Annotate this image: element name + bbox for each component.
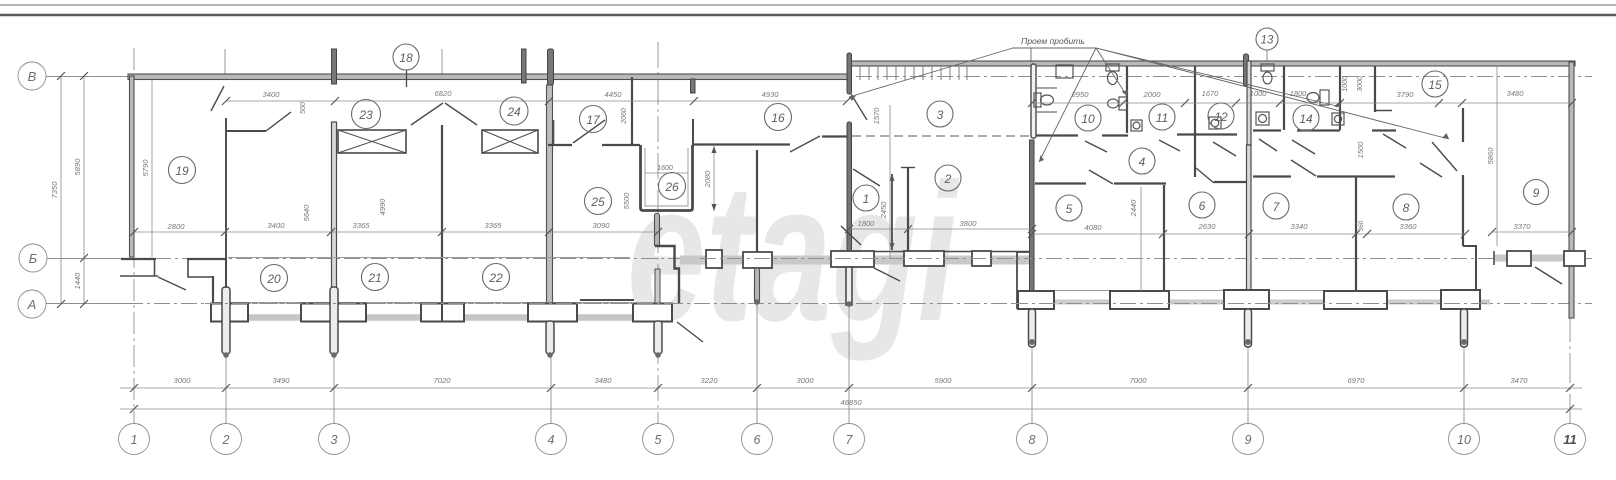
svg-text:1800: 1800 [1290,89,1308,98]
axis 5 vertical line [657,42,659,424]
svg-text:21: 21 [367,271,381,285]
svg-text:7: 7 [846,433,854,447]
wall x908 [907,168,909,251]
middle dimension line left y232 [134,231,658,233]
porch thin edge right section [1037,290,1465,292]
column base axis 9 [1224,290,1269,309]
column cross axis 7 [831,251,874,267]
room22 right step wall [655,246,679,304]
svg-text:15: 15 [1428,78,1442,92]
axis circle А left [18,290,46,318]
door leaf room 1 on axis7 wall [853,169,880,186]
axis circle 8 [1017,424,1048,455]
svg-text:2630: 2630 [1198,222,1217,231]
room circle 21 [362,264,389,291]
toilet room 11 [1106,64,1119,85]
svg-text:26: 26 [664,180,679,194]
leader line 3 with arrow [1096,48,1128,96]
top dimension line left section [226,100,847,102]
svg-text:3340: 3340 [1291,222,1309,231]
svg-text:4990: 4990 [378,198,387,216]
axis circle 11 [1555,424,1586,455]
svg-text:3365: 3365 [353,221,371,230]
axis line Б horizontal [47,258,1592,260]
svg-text:3400: 3400 [263,90,281,99]
right end dim ticks [1488,228,1576,236]
duct box room 26 inner line [645,148,688,206]
circle 18 leader line [406,70,408,87]
svg-text:8: 8 [1403,201,1410,215]
svg-text:360: 360 [1358,220,1365,231]
window mullion bar x1246 [1244,54,1249,86]
bathroom partition x1127 [1126,66,1128,133]
axis 9 vertical line [1247,310,1249,424]
svg-text:19: 19 [175,164,189,178]
svg-text:2: 2 [222,433,230,447]
sink room 12b [1256,112,1269,125]
wall stub y110 at x1375 [1375,110,1392,112]
door leaf y145 opening [790,136,820,152]
partition x632 [631,77,633,145]
room circle 24 [500,97,528,125]
bathroom partition x1340 [1339,66,1341,130]
door leaf stair wall top [851,94,867,120]
svg-text:Б: Б [29,251,38,266]
room5 door leaf [1089,170,1113,184]
top exterior wall left section [128,74,849,80]
partition x553 room17 [553,120,555,145]
left end exterior wall [130,76,135,257]
room circle 17 [580,106,607,133]
room8 door leaf [1420,163,1442,177]
axis В solid lead-in [46,76,130,78]
svg-text:1600: 1600 [657,165,673,172]
stair landing dashed line [852,135,1029,137]
inner vertical dim line x152 [151,80,153,257]
axis circle 2 [211,424,242,455]
axis circle Б left [19,244,47,272]
partition x334 window sill [228,256,334,258]
svg-text:5: 5 [655,433,662,447]
svg-text:18: 18 [399,51,413,65]
vestibule dim ticks [845,225,1036,233]
column bar axis 9 [1245,309,1252,347]
bottom row ticks [130,384,1574,392]
column bar axis 8 [1029,309,1036,347]
top left ticks [222,97,851,105]
wall stub x693 below top wall [691,79,696,93]
column cross base axis 2 [211,304,248,322]
row2 end ticks [130,405,1574,413]
right end south wall block b [1564,251,1585,266]
room circle 2 [935,165,961,191]
svg-text:3470: 3470 [1511,376,1529,385]
column bar axis 5 inner [655,269,660,303]
svg-text:6: 6 [754,433,761,447]
vestibule south wall edge [852,251,1030,253]
svg-text:6: 6 [1199,199,1206,213]
svg-text:11: 11 [1156,111,1168,125]
partition x1164 rooms 5/6 [1163,185,1165,291]
svg-text:1: 1 [863,192,870,206]
axis circle 3 [319,424,350,455]
column bar axis 6 [755,268,760,304]
stairwell wall axis 7 [847,53,852,94]
right middle dim line y234 [1032,233,1465,235]
toilet room 10 [1034,93,1054,107]
corridor south wall seg a [1035,182,1086,184]
room circle 22 [483,264,510,291]
svg-text:2080: 2080 [703,170,712,189]
svg-text:3090: 3090 [593,221,611,230]
svg-text:1570: 1570 [872,107,881,125]
svg-text:3790: 3790 [1397,90,1415,99]
svg-text:6970: 6970 [1348,376,1366,385]
room circle 4 [1129,148,1155,174]
wall y145 segment b [602,144,640,146]
porch foundation gray band left [226,314,658,321]
svg-text:500: 500 [300,102,307,114]
svg-text:7020: 7020 [434,376,452,385]
door leaf room 16 vestibule [841,226,861,245]
column base long 8-9 [1110,291,1169,309]
corridor door leaf 4 [1259,139,1277,151]
room circle 7 [1263,193,1289,219]
column bar axis 3 [330,287,338,354]
column cross base axis 4 [528,304,577,322]
column bar axis 2 [222,287,230,354]
bathroom partition x1375 [1374,66,1376,112]
bottom dimension line row 2 [120,408,1582,410]
axis line А horizontal [46,303,1592,305]
room4 dim line x1141 [1140,187,1142,291]
left dim ticks [57,72,88,308]
bathroom partition x1249 [1247,61,1251,145]
bathroom partition x1284 [1283,66,1285,130]
svg-text:5890: 5890 [73,158,82,176]
axis circle 10 [1449,424,1480,455]
room circle 25 [585,188,612,215]
bathroom wall y130 seg d [1253,129,1281,131]
top right ticks [1028,99,1576,107]
right end exterior wall [1569,62,1574,318]
partition x334 rooms 19/20 strip [332,122,337,303]
dim line 1600 [645,172,688,174]
toilet room 10 east wall [1108,97,1128,110]
entrance lower step edge [120,275,158,277]
window mullion bar axis 3 [332,49,337,84]
column bar axis 10 [1461,309,1468,347]
svg-text:4: 4 [1139,155,1146,169]
stair hatch treads [860,66,967,80]
double door leaf left x442 [411,103,443,125]
partition x226 room 19/23 [225,118,227,258]
bathroom wall y133 seg b [1102,134,1128,136]
axis 7 vertical line [848,306,850,424]
axis A dash-dot overlay right porch [1012,303,1490,305]
axis 2 stub above wall [224,49,226,76]
note underline [1012,47,1096,49]
svg-text:4450: 4450 [605,90,623,99]
svg-text:3490: 3490 [273,376,291,385]
svg-text:8: 8 [1029,433,1036,447]
bathroom partition x1195 [1194,66,1196,177]
column bar axis 5 [654,321,662,354]
svg-text:23: 23 [358,108,373,122]
porch foundation gray band right [1040,300,1490,305]
axis line В horizontal [46,76,1592,78]
door leaf room 19 top [211,86,224,111]
svg-text:1: 1 [131,433,138,447]
room6 door leaf [1196,168,1214,183]
axis 1 vertical line [133,48,135,424]
sink room 11 [1131,120,1142,131]
room circle 15 [1422,71,1448,97]
top dimension line right section [1032,102,1572,104]
leader line 4 with arrow [1096,48,1341,107]
partition x1356 rooms 7/8 [1355,177,1357,291]
door leaf rooms 8/9 [1432,142,1457,171]
svg-text:7000: 7000 [1130,376,1148,385]
partition x1463 rooms 8/9 [1462,175,1464,246]
svg-text:7: 7 [1273,200,1281,214]
entrance wall y259 left part [121,258,156,260]
room circle 14 [1293,105,1319,131]
right end dim line y232 [1492,231,1572,233]
svg-text:А: А [27,297,37,312]
porch south dark wall segment [580,299,634,301]
svg-text:3000: 3000 [797,376,815,385]
room circle 19 [169,157,196,184]
porch south edge line left [213,302,632,304]
mid axis stub above wall [441,49,443,76]
toilet room 14 [1307,90,1329,105]
room circle 1 [853,185,879,211]
corridor south wall seg c [1214,181,1246,183]
wc stall partition lines [1037,88,1057,112]
room circle 11 [1149,104,1175,130]
svg-text:1800: 1800 [858,219,876,228]
svg-text:5640: 5640 [302,204,311,222]
svg-text:3000: 3000 [1357,76,1364,92]
column bar axis 7 [846,267,852,305]
partition x757 [756,150,758,252]
vestibule window block b [972,251,991,266]
entrance jamb x188 [188,259,213,277]
svg-text:4080: 4080 [1085,223,1103,232]
svg-text:1500: 1500 [1356,141,1365,159]
axis 4 vertical line [550,240,552,424]
bathroom wall y133 seg a [1036,134,1078,136]
corridor south wall seg b [1114,182,1166,184]
sink room 12 [1209,117,1221,129]
wall x693 upper partition [692,119,694,145]
vent block 23 [338,130,406,153]
room circle 5 [1056,195,1082,221]
room circle 20 [261,265,288,292]
svg-text:5500: 5500 [622,192,631,210]
door leaf room 23 [266,112,291,131]
leader line 1 [1030,48,1032,62]
svg-text:5: 5 [1066,202,1073,216]
corridor door leaf 3 [1213,142,1236,156]
svg-text:1440: 1440 [73,272,82,290]
svg-text:4: 4 [548,433,555,447]
axis circle 5 [643,424,674,455]
svg-text:1670: 1670 [1202,89,1220,98]
wall axis 8 upper outlined [1031,64,1036,138]
svg-text:3: 3 [937,108,944,122]
middle left ticks [130,228,662,236]
axis circle В left [18,62,46,90]
svg-text:20: 20 [266,272,281,286]
right end foundation gray band [1495,255,1572,262]
axis circle 1 [119,424,150,455]
axis 8 vertical line [1031,344,1033,424]
column bar end caps [223,299,1467,358]
bottom dimension line row 1 [120,387,1582,389]
leader line 0 with arrow [849,48,1013,101]
sheet border top thick line [0,14,1616,16]
right end door leaf [1535,267,1562,284]
room circle 8 [1393,194,1419,220]
vestibule window block square x714 [706,250,722,268]
duct box room 26 [641,145,693,211]
axis circle 9 [1233,424,1264,455]
stairwell wall axis 7 lower part [847,122,852,251]
svg-text:6820: 6820 [435,89,453,98]
svg-text:3360: 3360 [1400,222,1418,231]
axis8 wall lower notch [1017,252,1029,308]
svg-text:1000: 1000 [1250,89,1268,98]
svg-text:16: 16 [771,111,785,125]
wall x908 top tick [901,167,915,169]
axis 11 vertical line [1569,66,1571,424]
vent block 24 [482,130,538,153]
svg-text:9: 9 [1533,186,1540,200]
column base axis 10 [1441,290,1480,309]
svg-text:В: В [28,69,37,84]
corridor door leaf 5 [1292,140,1315,154]
svg-text:2060: 2060 [621,108,628,125]
room circle 13 [1256,28,1278,50]
wall axis 8 lower [1030,140,1035,291]
wall y128 room 23 [226,130,266,132]
svg-text:14: 14 [1299,112,1313,126]
bathroom wall y133 seg c [1177,133,1237,135]
room circle 18 [393,44,419,70]
svg-text:11: 11 [1563,432,1577,447]
thin sill line rooms 20-22 [228,257,630,259]
duct bar below box 26 [655,214,660,247]
axis А solid lead-in [46,303,128,305]
left vertical dim line x61 [60,76,62,304]
wall x213 below entrance [212,276,214,303]
duct dim arrow line x714 [712,146,717,211]
top exterior wall right section [849,61,1575,66]
axis 2 vertical line [225,240,227,424]
svg-text:12: 12 [1214,110,1228,124]
svg-text:17: 17 [586,113,601,127]
svg-text:10: 10 [1081,112,1095,126]
column base long 9-10 [1324,291,1387,309]
partition jog y248 [1463,246,1476,291]
svg-text:3: 3 [331,433,338,447]
leader line 5 with arrow [1096,48,1449,139]
partition x1463 upper [1462,108,1464,142]
partition x1249 rooms 6/7 [1247,145,1252,291]
axis 3 vertical line [333,240,335,424]
corridor door leaf 6 [1383,134,1406,148]
left vertical dim line x84 [83,76,85,304]
room circle 6 [1189,192,1215,218]
double door leaf right x442 [445,103,477,125]
svg-text:2450: 2450 [879,201,888,220]
room circle 26 [659,173,686,200]
svg-text:3800: 3800 [960,219,978,228]
sink room 14 corner [1332,113,1344,125]
room circle 12 [1208,103,1234,129]
axis 10 vertical line [1463,310,1465,424]
door leaf room 17 [573,120,605,143]
callout circle 13 leader [1266,50,1268,62]
vestibule window block a [904,251,944,266]
svg-text:2: 2 [944,172,952,186]
bathroom wall y130 seg e [1297,129,1340,131]
right middle ticks [1028,230,1469,238]
right vertical dim line x1497 [1496,66,1498,246]
room circle 9 [1524,180,1549,205]
svg-text:1000: 1000 [1342,76,1349,92]
room circle 3 [927,101,953,127]
porch door leaf axis5 [677,322,703,342]
right end south wall blocks [1507,251,1531,266]
svg-text:13: 13 [1261,35,1274,47]
column cross axis 6 [743,252,772,268]
svg-text:3000: 3000 [174,376,192,385]
entrance door leaf [158,277,186,290]
room circle 10 [1075,105,1101,131]
axis B dash-dot overlay vestibule [700,258,1032,260]
axis circle 6 [742,424,773,455]
column bar axis 4 [546,321,554,354]
svg-text:2440: 2440 [1129,199,1138,218]
corridor door leaf 2 [1159,140,1180,151]
window mullion bar axis 4 top [548,49,554,85]
wall y145 segment c [693,143,791,145]
svg-text:3480: 3480 [1507,89,1525,98]
corridor south wall seg d [1253,175,1291,177]
svg-text:3220: 3220 [701,376,719,385]
svg-text:5860: 5860 [1486,147,1495,165]
column cross base axis 5 [633,304,672,322]
axis Б solid lead-in [47,258,121,260]
toilet room 13 [1261,64,1274,84]
sink room 10 [1056,65,1073,78]
svg-text:2950: 2950 [1071,90,1090,99]
column mid 3-4 partition through base [441,303,443,321]
wall y145 segment d [822,135,847,137]
svg-text:5790: 5790 [141,159,150,177]
vestibule dim line y229 [849,228,1032,230]
entrance jamb x154 [154,259,156,276]
room circle 23 [352,100,381,129]
axis 6 vertical line [756,270,758,424]
column base axis 8 [1018,291,1054,309]
stair edge line x890 [889,105,891,258]
axis circle 7 [834,424,865,455]
corridor door leaf 1 [1085,141,1107,152]
